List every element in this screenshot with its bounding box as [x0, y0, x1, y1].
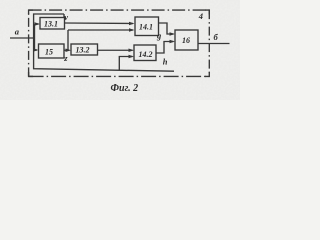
svg-text:Фиг. 2: Фиг. 2 — [111, 83, 139, 94]
box 14.1 — [135, 17, 159, 36]
wire 15 to 13.2 — [64, 49, 69, 51]
arrow into 14.2 lower — [129, 55, 135, 59]
arrow into 15 — [33, 48, 39, 52]
wire a input — [10, 37, 35, 39]
svg-text:14.2: 14.2 — [139, 50, 153, 59]
box 13.1 — [40, 18, 65, 30]
wire z vertical junction — [67, 30, 69, 50]
box 15 — [39, 44, 65, 58]
wire z to 14.1 lower — [68, 29, 133, 31]
arrow into 16 upper — [170, 32, 176, 36]
arrow into 14.2 upper — [129, 48, 135, 52]
wire 13.2 to 14.2 — [98, 49, 133, 51]
svg-text:16: 16 — [182, 36, 190, 45]
svg-text:4: 4 — [198, 11, 203, 21]
unit 4 dash-dot boundary — [29, 9, 210, 11]
arrow into 14.1 upper — [129, 22, 135, 26]
arrow into 13.2 — [66, 48, 72, 52]
wire into 13.1 — [35, 23, 39, 25]
arrow into 16 lower — [170, 40, 176, 44]
svg-text:14.1: 14.1 — [139, 23, 153, 32]
inner solid sub-unit outline — [34, 14, 174, 71]
wire v 13.1 to 14.1 — [65, 22, 134, 25]
wire 14.2 to 16 — [156, 42, 174, 54]
box 14.2 — [134, 45, 156, 61]
svg-text:13.2: 13.2 — [76, 46, 90, 55]
wire into 15 — [35, 49, 38, 51]
svg-text:g: g — [156, 31, 162, 41]
arrow into 13.1 — [35, 22, 41, 26]
wire b output — [198, 43, 230, 45]
box 13.2 — [71, 44, 98, 55]
wire from rect bottom to 14.2 lower — [119, 57, 132, 71]
svg-text:h: h — [163, 57, 168, 67]
svg-text:a: a — [15, 27, 20, 37]
box 16 — [175, 30, 198, 50]
wire input bus vertical — [34, 24, 36, 50]
svg-text:z: z — [63, 53, 68, 63]
svg-text:15: 15 — [45, 48, 53, 57]
svg-text:13.1: 13.1 — [44, 20, 58, 29]
wire 14.1 to 16 — [159, 23, 174, 34]
arrow into 14.1 lower — [129, 28, 135, 32]
svg-text:v: v — [64, 12, 68, 22]
wire rect-top to 13.1 corner — [63, 14, 65, 18]
paper background — [0, 0, 240, 100]
